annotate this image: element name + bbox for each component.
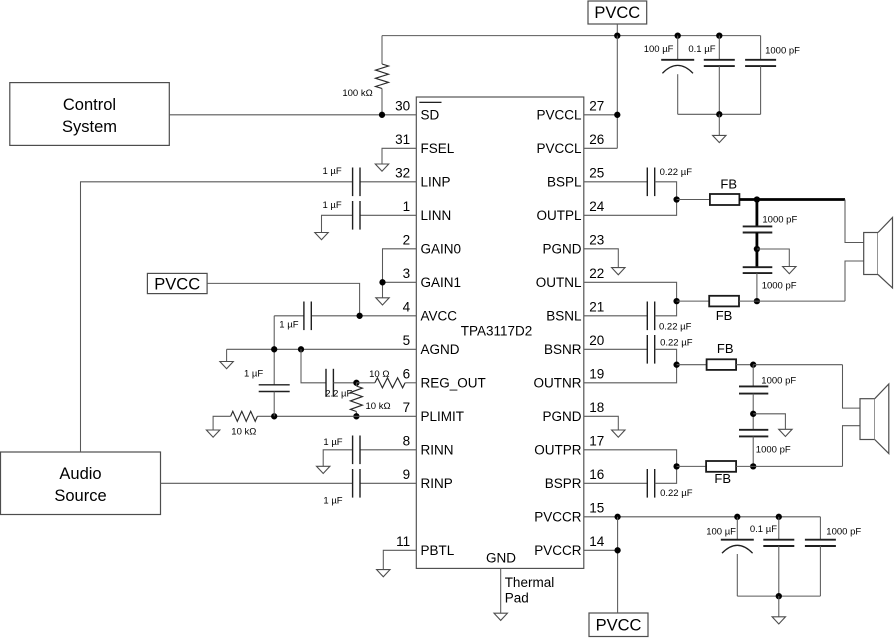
ground top bank bbox=[713, 135, 726, 142]
power PVCC bottom bbox=[589, 613, 648, 637]
svg-text:24: 24 bbox=[589, 199, 605, 214]
wire BSNR cap to FB3 node bbox=[655, 349, 677, 364]
capacitor C4 2.2 uF REG_OUT bbox=[325, 369, 327, 397]
svg-text:0.22 µF: 0.22 µF bbox=[660, 167, 693, 178]
node top bus junction bbox=[614, 32, 620, 38]
svg-text:20: 20 bbox=[589, 333, 604, 348]
SD overline bbox=[419, 101, 441, 103]
svg-text:Thermal: Thermal bbox=[505, 575, 555, 590]
wire BSPL cap to FB1 node bbox=[655, 182, 677, 200]
resistor R4 10 kOhm PLIMIT bbox=[231, 411, 258, 421]
svg-text:LINP: LINP bbox=[421, 175, 451, 190]
node top bank ground junction bbox=[716, 111, 722, 117]
capacitor C13 1000 pF OUTNL snubber bbox=[743, 266, 773, 268]
wire top bank bottom bus bbox=[678, 113, 761, 115]
node AGND junction 1 bbox=[271, 346, 277, 352]
node FB1 left junction bbox=[673, 196, 679, 202]
svg-text:FB: FB bbox=[720, 177, 737, 192]
ground RINN bbox=[317, 466, 330, 473]
svg-text:FSEL: FSEL bbox=[421, 141, 455, 156]
svg-text:25: 25 bbox=[589, 165, 604, 180]
svg-text:1000 pF: 1000 pF bbox=[756, 445, 791, 456]
wire snubber mid to ground bbox=[757, 249, 789, 267]
svg-text:100 kΩ: 100 kΩ bbox=[342, 88, 372, 99]
wire PBTL pin 11 to ground bbox=[383, 550, 416, 569]
power PVCC left bbox=[147, 273, 207, 293]
ground snubber L bbox=[783, 267, 796, 274]
svg-text:SD: SD bbox=[421, 108, 440, 123]
svg-text:1000 pF: 1000 pF bbox=[761, 376, 796, 387]
svg-text:PVCC: PVCC bbox=[154, 275, 200, 293]
capacitor C20 0.1 uF bottom bbox=[778, 517, 780, 540]
node top bank junction 2 bbox=[716, 32, 722, 38]
wire PVCC left to AVCC pin 4 bbox=[207, 283, 360, 315]
svg-text:0.1 µF: 0.1 µF bbox=[750, 524, 777, 535]
capacitor C21 1000 pF bottom bbox=[819, 517, 821, 540]
capacitor C16 1000 pF OUTNR snubber bbox=[752, 365, 754, 387]
capacitor C19 100 uF bottom bbox=[736, 517, 738, 540]
svg-text:PVCCR: PVCCR bbox=[534, 510, 582, 525]
svg-text:GAIN1: GAIN1 bbox=[421, 275, 462, 290]
wire to FB2 bbox=[677, 300, 710, 302]
svg-text:PBTL: PBTL bbox=[421, 543, 455, 558]
svg-text:100 µF: 100 µF bbox=[706, 526, 736, 537]
svg-text:10 kΩ: 10 kΩ bbox=[231, 427, 256, 438]
block Audio Source bbox=[1, 452, 161, 515]
svg-text:1000 pF: 1000 pF bbox=[762, 215, 797, 226]
node FB3 left junction bbox=[673, 362, 679, 368]
svg-text:GND: GND bbox=[486, 551, 516, 566]
svg-text:17: 17 bbox=[589, 433, 604, 448]
svg-text:18: 18 bbox=[589, 400, 604, 415]
wire bottom bank bus bbox=[737, 595, 820, 597]
ground PLIMIT bbox=[206, 430, 219, 437]
svg-text:30: 30 bbox=[395, 98, 410, 113]
ground GAIN bbox=[376, 298, 389, 305]
capacitor C18 0.22 uF BSPR bbox=[646, 469, 648, 498]
wire BSPR pin 16 bbox=[584, 482, 648, 484]
svg-text:15: 15 bbox=[589, 500, 604, 515]
svg-text:PVCCR: PVCCR bbox=[534, 543, 582, 558]
ferrite bead FB2 bbox=[709, 296, 739, 307]
svg-text:1 µF: 1 µF bbox=[322, 200, 341, 211]
svg-text:10 kΩ: 10 kΩ bbox=[366, 401, 391, 412]
node OUTNL junction bbox=[754, 298, 760, 304]
node PVCCR junction 2 bbox=[614, 547, 620, 553]
node snubber R mid junction bbox=[750, 411, 756, 417]
svg-text:RINN: RINN bbox=[421, 443, 454, 458]
svg-text:23: 23 bbox=[589, 232, 604, 247]
svg-text:GAIN0: GAIN0 bbox=[421, 242, 462, 257]
node OUTPL junction bbox=[754, 196, 760, 202]
wire PGND pin 23 to ground bbox=[584, 249, 619, 268]
svg-text:PGND: PGND bbox=[542, 409, 581, 424]
node OUTNR junction bbox=[750, 362, 756, 368]
svg-text:TPA3117D2: TPA3117D2 bbox=[461, 323, 533, 338]
svg-text:PVCC: PVCC bbox=[594, 4, 640, 22]
ferrite bead FB4 bbox=[706, 461, 736, 472]
wire BSPR cap to FB4 node bbox=[655, 466, 677, 483]
wire PLIMIT pin 7 bbox=[257, 415, 416, 417]
ground AGND bbox=[220, 362, 233, 369]
svg-text:Control: Control bbox=[63, 96, 116, 114]
svg-text:1: 1 bbox=[403, 199, 411, 214]
svg-text:26: 26 bbox=[589, 132, 604, 147]
capacitor C9 0.1 uF top bbox=[718, 36, 720, 60]
node bottom bank junction 1 bbox=[734, 514, 740, 520]
svg-text:11: 11 bbox=[396, 534, 410, 549]
svg-text:1 µF: 1 µF bbox=[279, 319, 298, 330]
ground PBTL bbox=[377, 570, 390, 577]
resistor R3 10 kOhm PLIMIT divider bbox=[355, 383, 357, 386]
svg-text:1000 pF: 1000 pF bbox=[765, 46, 800, 57]
svg-text:OUTNL: OUTNL bbox=[536, 275, 582, 290]
node AVCC junction bbox=[356, 313, 362, 319]
wire to FB3 bbox=[677, 364, 707, 366]
wire PGND pin 18 to ground bbox=[584, 416, 619, 430]
capacitor C11 0.22 uF BSPL bbox=[646, 168, 648, 197]
wire PVCC riser to pin 14 and PVCC box bbox=[617, 517, 619, 613]
svg-text:14: 14 bbox=[589, 534, 605, 549]
wire OUTPL pin 24 bbox=[584, 200, 677, 216]
svg-text:FB: FB bbox=[716, 308, 733, 323]
wire top bus PVCC to 100k bbox=[382, 35, 761, 37]
svg-text:9: 9 bbox=[403, 467, 411, 482]
wire speaker2 positive lead bbox=[843, 365, 861, 408]
svg-text:16: 16 bbox=[589, 467, 604, 482]
block Control System bbox=[10, 83, 170, 146]
svg-text:0.22 µF: 0.22 µF bbox=[660, 488, 693, 499]
wire GAIN0 pin 2 to GAIN1 pin 3 bbox=[383, 249, 417, 282]
wire PVCC top stub bbox=[616, 24, 618, 36]
svg-text:AGND: AGND bbox=[421, 342, 460, 357]
capacitor C6 1 uF RINN bbox=[352, 436, 354, 465]
svg-text:System: System bbox=[62, 118, 117, 136]
svg-text:1 µF: 1 µF bbox=[323, 437, 342, 448]
svg-text:3: 3 bbox=[403, 266, 411, 281]
svg-text:2: 2 bbox=[403, 232, 411, 247]
svg-text:PLIMIT: PLIMIT bbox=[421, 409, 465, 424]
svg-text:PVCC: PVCC bbox=[596, 617, 642, 635]
wire PLIMIT to ground bbox=[213, 416, 231, 430]
svg-text:1000 pF: 1000 pF bbox=[826, 527, 861, 538]
capacitor C7 1 uF RINP bbox=[352, 469, 354, 498]
svg-text:0.22 µF: 0.22 µF bbox=[660, 337, 693, 348]
svg-text:PVCCL: PVCCL bbox=[536, 108, 582, 123]
ground thermal pad bbox=[494, 613, 507, 620]
svg-text:LINN: LINN bbox=[421, 208, 452, 223]
ground snubber R bbox=[779, 429, 792, 436]
svg-text:4: 4 bbox=[403, 299, 411, 314]
ferrite bead FB3 bbox=[707, 359, 737, 370]
ground LINN bbox=[315, 233, 328, 240]
wire GAIN1 pin 3 bbox=[383, 281, 417, 283]
wire BSNL cap to FB2 node bbox=[655, 301, 677, 316]
power PVCC top bbox=[588, 1, 647, 24]
wire RINN pin 8 to ground cap bbox=[323, 450, 352, 467]
svg-text:BSPR: BSPR bbox=[545, 476, 582, 491]
resistor R2 10 Ohm REG_OUT bbox=[356, 382, 375, 384]
ground PGND L bbox=[612, 268, 625, 275]
svg-text:31: 31 bbox=[395, 132, 410, 147]
node PVCCL junction bbox=[614, 112, 620, 118]
wire BSNL pin 21 bbox=[584, 315, 648, 317]
wire speaker1 negative lead bbox=[845, 261, 864, 301]
svg-text:BSPL: BSPL bbox=[547, 175, 582, 190]
node FB4 left junction bbox=[673, 463, 679, 469]
wire FB1 to output node bbox=[739, 198, 757, 201]
speaker LS1 bbox=[864, 233, 878, 275]
svg-text:RINP: RINP bbox=[421, 476, 453, 491]
capacitor C3 1 uF AVCC bbox=[303, 302, 305, 331]
svg-text:7: 7 bbox=[403, 400, 411, 415]
node PLIMIT junction 1 bbox=[353, 413, 359, 419]
svg-text:Source: Source bbox=[54, 487, 106, 505]
wire 2.2uF to REG_OUT node bbox=[333, 382, 356, 384]
wire OUTNR to speaker2 bbox=[753, 364, 842, 366]
wire PVCCR pin 14 bbox=[584, 549, 618, 551]
wire snubber mid (bold) bbox=[756, 233, 759, 268]
svg-text:PGND: PGND bbox=[542, 242, 581, 257]
op-amp U1 TPA3117D2 body bbox=[416, 97, 584, 568]
svg-text:OUTNR: OUTNR bbox=[534, 376, 582, 391]
capacitor C12 1000 pF OUTPL snubber bbox=[756, 200, 759, 227]
svg-text:FB: FB bbox=[717, 341, 734, 356]
svg-text:32: 32 bbox=[395, 165, 410, 180]
resistor R1 100 kOhm pullup bbox=[381, 36, 383, 64]
svg-text:BSNL: BSNL bbox=[546, 309, 582, 324]
svg-text:10 Ω: 10 Ω bbox=[369, 369, 389, 380]
svg-text:19: 19 bbox=[589, 366, 604, 381]
svg-text:AVCC: AVCC bbox=[421, 309, 458, 324]
wire AVCC pin 4 bbox=[311, 315, 416, 317]
capacitor C8 100 uF top bbox=[677, 36, 679, 60]
thermal pad wire bbox=[500, 568, 502, 613]
svg-text:Audio: Audio bbox=[59, 465, 101, 483]
wire snubber R mid to ground bbox=[753, 414, 785, 430]
node GAIN junction bbox=[379, 279, 385, 285]
wire FB3 to output node bbox=[736, 364, 753, 366]
ferrite bead FB1 bbox=[710, 194, 740, 205]
svg-text:100 µF: 100 µF bbox=[644, 44, 674, 55]
capacitor C14 0.22 uF BSNL bbox=[646, 302, 648, 331]
node OUTPR junction bbox=[750, 463, 756, 469]
wire OUTPR pin 17 bbox=[584, 450, 677, 467]
svg-text:0.22 µF: 0.22 µF bbox=[659, 322, 692, 333]
capacitor C2 1 uF LINN bbox=[352, 201, 354, 230]
svg-text:REG_OUT: REG_OUT bbox=[421, 376, 486, 391]
wire FSEL pin 31 to ground bbox=[382, 148, 416, 164]
svg-text:OUTPR: OUTPR bbox=[534, 443, 582, 458]
svg-text:FB: FB bbox=[714, 471, 731, 486]
svg-text:6: 6 bbox=[403, 366, 411, 381]
svg-text:2.2 µF: 2.2 µF bbox=[325, 388, 352, 399]
svg-text:1 µF: 1 µF bbox=[322, 166, 341, 177]
wire PVCC down to PVCCL pins bbox=[616, 36, 618, 149]
ground bottom bank bbox=[772, 617, 785, 624]
wire PVCCL pin 26 bbox=[584, 147, 618, 149]
svg-text:1000 pF: 1000 pF bbox=[762, 281, 797, 292]
node snubber mid junction bbox=[754, 246, 760, 252]
wire PVCCR pin 15 bus bbox=[584, 516, 821, 518]
wire PVCCL pin 27 bbox=[584, 114, 618, 116]
node bottom bank ground junction bbox=[776, 593, 782, 599]
wire BSPL pin 25 bbox=[584, 181, 648, 183]
node SD junction bbox=[379, 112, 385, 118]
node AGND junction 2 bbox=[298, 346, 304, 352]
capacitor C15 0.22 uF BSNR bbox=[646, 335, 648, 364]
capacitor C10 1000 pF top bbox=[760, 36, 762, 60]
svg-text:PVCCL: PVCCL bbox=[536, 141, 582, 156]
wire LINP pin 32 from audio riser bbox=[81, 182, 353, 452]
wire LINN pin 1 to ground cap bbox=[322, 215, 353, 232]
svg-text:5: 5 bbox=[403, 333, 411, 348]
wire to FB1 bbox=[677, 199, 710, 201]
wire AGND vertical from AVCC cap bbox=[273, 316, 275, 385]
node top bank junction 1 bbox=[675, 32, 681, 38]
wire AGND to ground bbox=[226, 349, 228, 361]
svg-text:27: 27 bbox=[589, 98, 604, 113]
capacitor C1 1 uF LINP bbox=[352, 168, 354, 197]
node bottom bank junction 2 bbox=[776, 514, 782, 520]
wire AGND to 2.2uF cap bbox=[301, 349, 326, 383]
wire AGND pin 5 bbox=[227, 348, 417, 350]
svg-text:8: 8 bbox=[403, 433, 411, 448]
wire to FB4 bbox=[677, 465, 707, 467]
wire speaker2 negative lead bbox=[843, 426, 861, 467]
svg-text:1 µF: 1 µF bbox=[244, 368, 263, 379]
ground PGND R bbox=[612, 430, 625, 437]
node PVCCR junction 1 bbox=[614, 514, 620, 520]
svg-text:0.1 µF: 0.1 µF bbox=[688, 44, 715, 55]
node PLIMIT junction 2 bbox=[271, 413, 277, 419]
capacitor C17 1000 pF OUTPR snubber bbox=[739, 429, 768, 431]
ground FSEL bbox=[375, 164, 388, 171]
wire OUTNL pin 22 bbox=[584, 282, 677, 301]
wire FB2 to speaker bbox=[739, 300, 757, 302]
speaker LS2 bbox=[860, 399, 875, 440]
svg-text:Pad: Pad bbox=[505, 591, 529, 606]
wire FB4 to speaker2 bbox=[736, 465, 753, 467]
node FB2 left junction bbox=[673, 298, 679, 304]
wire OUTNR pin 19 bbox=[584, 365, 677, 383]
svg-text:21: 21 bbox=[589, 299, 604, 314]
capacitor C5 1 uF PLIMIT bbox=[259, 384, 290, 386]
wire OUTPL to speaker top (bold) bbox=[757, 198, 845, 201]
svg-text:OUTPL: OUTPL bbox=[536, 208, 582, 223]
wire RINP pin 9 from Audio Source bbox=[161, 482, 353, 484]
wire speaker1 positive lead bbox=[845, 200, 864, 243]
svg-text:22: 22 bbox=[589, 266, 604, 281]
wire Control System to SD pin 30 bbox=[169, 114, 416, 116]
wire BSNR pin 20 bbox=[584, 348, 648, 350]
svg-text:1 µF: 1 µF bbox=[323, 496, 342, 507]
node REG_OUT junction bbox=[353, 380, 359, 386]
svg-text:BSNR: BSNR bbox=[544, 342, 582, 357]
